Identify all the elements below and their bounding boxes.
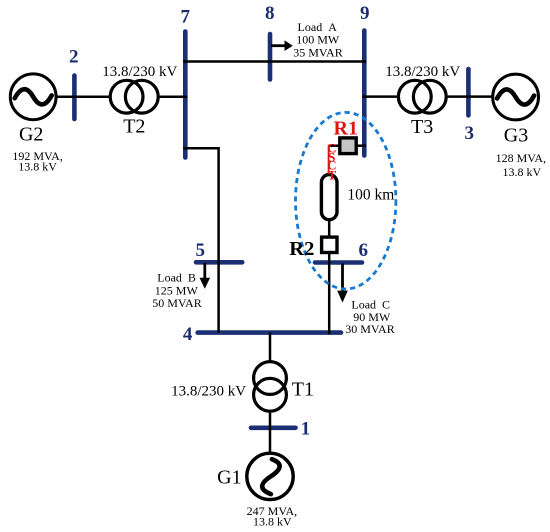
svg-text:R2: R2 [289,238,314,260]
wire bus9 to T3 to bus3 to G3 [362,95,516,98]
red TCSC lead wire [328,145,330,174]
wire gray box left lead [329,144,340,147]
svg-text:Load B: Load B [157,271,196,285]
wire tie bus7-bus8-bus9 [183,60,366,63]
svg-text:T2: T2 [123,116,145,138]
svg-text:13.8 kV: 13.8 kV [253,515,292,529]
svg-text:T: T [327,168,336,183]
bus 4 [198,330,341,335]
svg-text:G1: G1 [217,466,241,488]
wire bus4 to T1 to bus1 to G1 [269,333,272,455]
generator G1 [247,453,293,499]
bus 8 [268,34,273,80]
generator G2 [10,74,56,120]
svg-text:128 MVA,: 128 MVA, [496,151,546,165]
svg-text:9: 9 [360,3,370,24]
svg-text:13.8 kV: 13.8 kV [502,165,541,179]
svg-text:13.8/230 kV: 13.8/230 kV [385,64,460,80]
svg-text:2: 2 [69,46,79,67]
transformer T1 [254,362,287,412]
svg-text:G3: G3 [504,125,528,147]
transformer T2 [110,80,158,113]
dashed study-zone ellipse [296,112,396,289]
wire bus6 down to bus4 [328,263,331,335]
svg-text:3: 3 [464,123,474,144]
svg-text:R1: R1 [334,118,358,140]
svg-text:100 km: 100 km [347,187,394,204]
breaker R2 box [322,237,337,252]
svg-text:6: 6 [359,240,369,261]
svg-text:1: 1 [301,419,311,440]
wire line-reactor to R2 [328,220,331,237]
bus 9 [362,31,367,156]
wire G2 to T2 to bus 7 [33,95,187,98]
svg-text:8: 8 [265,3,275,24]
load C arrow [337,264,348,303]
bus 3 [466,69,471,115]
svg-text:13.8 kV: 13.8 kV [18,160,57,174]
transformer T3 [398,80,446,113]
bus 6 [315,260,362,265]
svg-text:G2: G2 [19,123,43,145]
svg-text:13.8/230 kV: 13.8/230 kV [171,384,246,400]
generator G3 [493,74,539,120]
red vertical letters C S C T [327,141,336,183]
bus 5 [196,260,242,265]
bus 1 [251,425,296,430]
svg-text:Load C: Load C [351,297,390,311]
wire R2 to bus6 [328,253,331,263]
bus 2 [72,76,77,120]
wire stub gray box to bus9 [356,144,366,147]
svg-text:4: 4 [183,324,193,345]
svg-text:5: 5 [195,240,205,261]
svg-text:30 MVAR: 30 MVAR [345,322,394,336]
load A arrow [271,40,293,51]
transmission line reactor (100 km) [321,175,337,220]
svg-text:50 MVAR: 50 MVAR [152,296,201,310]
svg-text:13.8/230 kV: 13.8/230 kV [102,64,177,80]
load B arrow [200,263,211,289]
svg-text:7: 7 [181,6,191,27]
wire bus7 tap down to bus4 [183,148,218,332]
bus 7 [183,32,188,158]
svg-text:35 MVAR: 35 MVAR [293,45,342,59]
svg-text:T3: T3 [411,116,433,138]
series device gray box (R1) [340,138,356,154]
svg-text:T1: T1 [292,379,314,401]
svg-text:100 MW: 100 MW [296,33,340,47]
